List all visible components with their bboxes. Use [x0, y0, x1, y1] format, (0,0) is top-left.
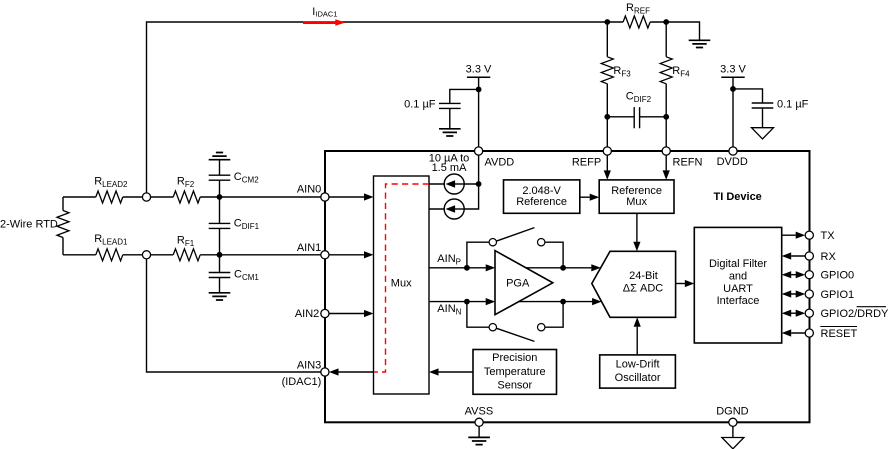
svg-text:PGA: PGA: [506, 277, 530, 289]
svg-text:REFP: REFP: [572, 157, 601, 169]
svg-text:RF2: RF2: [177, 175, 195, 189]
svg-text:DVDD: DVDD: [717, 156, 748, 168]
svg-text:CDIF2: CDIF2: [626, 91, 652, 105]
svg-text:REFN: REFN: [673, 157, 703, 169]
svg-text:RLEAD2: RLEAD2: [94, 175, 128, 189]
svg-text:TX: TX: [821, 230, 836, 242]
svg-text:RLEAD1: RLEAD1: [94, 233, 128, 247]
svg-text:AINN: AINN: [437, 303, 461, 317]
svg-text:0.1 µF: 0.1 µF: [777, 99, 809, 111]
svg-text:Temperature: Temperature: [484, 366, 546, 378]
svg-text:3.3 V: 3.3 V: [466, 64, 492, 76]
svg-text:Digital Filter: Digital Filter: [709, 258, 767, 270]
svg-text:DGND: DGND: [716, 405, 748, 417]
svg-text:AINP: AINP: [437, 253, 461, 267]
svg-text:ΔΣ ADC: ΔΣ ADC: [623, 283, 663, 295]
svg-text:RF4: RF4: [672, 65, 690, 79]
svg-text:AIN2: AIN2: [295, 308, 319, 320]
svg-text:UART: UART: [723, 283, 753, 295]
svg-text:CDIF1: CDIF1: [234, 218, 260, 232]
svg-text:TI Device: TI Device: [714, 191, 762, 203]
svg-text:Reference: Reference: [516, 196, 567, 208]
svg-text:GPIO0: GPIO0: [821, 270, 855, 282]
svg-text:Mux: Mux: [626, 196, 647, 208]
svg-text:Oscillator: Oscillator: [615, 372, 661, 384]
svg-text:(IDAC1): (IDAC1): [282, 376, 322, 388]
svg-text:GPIO1: GPIO1: [821, 289, 855, 301]
svg-text:0.1 µF: 0.1 µF: [404, 99, 436, 111]
svg-text:RF3: RF3: [613, 65, 631, 79]
svg-text:Low-Drift: Low-Drift: [616, 359, 660, 371]
svg-text:AVDD: AVDD: [485, 157, 515, 169]
svg-text:RX: RX: [821, 251, 837, 263]
svg-text:Mux: Mux: [391, 277, 412, 289]
svg-text:IIDAC1: IIDAC1: [312, 6, 337, 19]
svg-text:3.3 V: 3.3 V: [720, 64, 746, 76]
svg-text:RESET: RESET: [821, 328, 858, 340]
svg-text:GPIO2/DRDY: GPIO2/DRDY: [821, 308, 888, 320]
svg-text:RF1: RF1: [177, 234, 195, 248]
svg-text:Interface: Interface: [717, 295, 760, 307]
svg-text:Precision: Precision: [492, 352, 537, 364]
svg-text:and: and: [729, 270, 747, 282]
svg-text:CCM2: CCM2: [234, 171, 259, 185]
svg-text:2-Wire RTD: 2-Wire RTD: [0, 219, 58, 231]
svg-text:Sensor: Sensor: [497, 380, 532, 392]
svg-text:AVSS: AVSS: [465, 405, 494, 417]
svg-text:RREF: RREF: [626, 2, 650, 16]
svg-text:AIN0: AIN0: [297, 183, 321, 195]
svg-text:CCM1: CCM1: [234, 269, 259, 283]
svg-text:1.5 mA: 1.5 mA: [432, 162, 468, 174]
svg-text:24-Bit: 24-Bit: [629, 270, 658, 282]
svg-text:AIN1: AIN1: [297, 242, 321, 254]
svg-text:AIN3: AIN3: [297, 360, 321, 372]
